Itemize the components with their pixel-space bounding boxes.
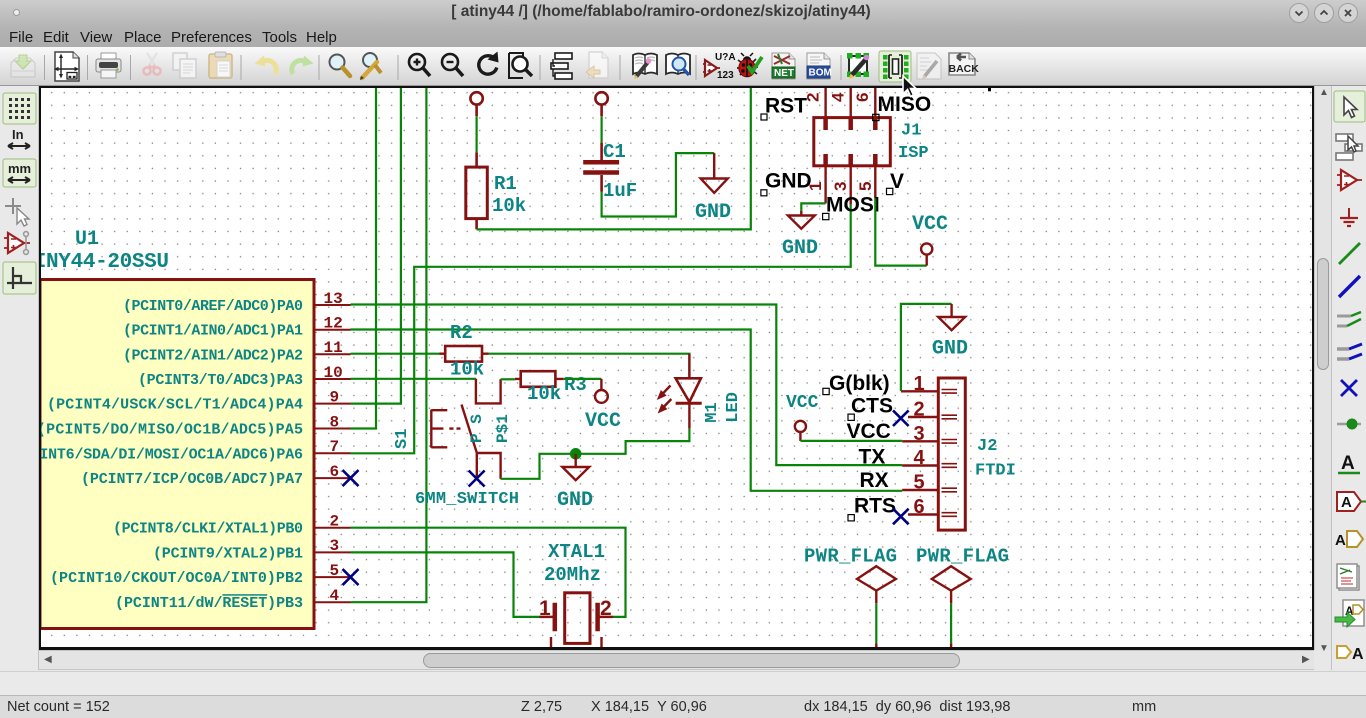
no-connect pin6: [343, 470, 359, 486]
IC U1 body: [40, 280, 314, 629]
redraw: [479, 52, 499, 75]
crystal XTAL1: [539, 593, 613, 650]
wire C1 bottom to GND: [602, 153, 715, 216]
XTAL1 pin numbers: [539, 597, 612, 620]
wire VCC to J2 pin3: [800, 440, 902, 442]
svg-text:A: A: [1341, 453, 1355, 474]
svg-text:A: A: [1335, 532, 1346, 549]
svg-text:2: 2: [914, 399, 925, 421]
svg-text:RTS: RTS: [854, 495, 896, 518]
svg-text:GND: GND: [782, 237, 818, 260]
no-connect J2 pin2: [893, 410, 909, 426]
sheet border tick: [988, 88, 991, 91]
hidden pins opamp: [4, 232, 30, 255]
hierarchical label: [1335, 531, 1363, 549]
wire PA3(10) to S1: [351, 378, 476, 380]
redo (disabled): [292, 56, 314, 75]
svg-text:XTAL1: XTAL1: [548, 541, 605, 563]
zoom fit: [509, 53, 532, 78]
LED M1: [660, 354, 702, 429]
junction: [1337, 419, 1361, 430]
capacitor C1: [583, 92, 619, 191]
svg-text:(PCINT4/USCK/SCL/T1/ADC4)PA4: (PCINT4/USCK/SCL/T1/ADC4)PA4: [47, 397, 303, 414]
svg-text:GND: GND: [932, 338, 968, 361]
copy (disabled): [173, 53, 196, 78]
svg-text:U?A: U?A: [715, 52, 736, 63]
svg-text:V: V: [890, 170, 904, 193]
svg-text:R3: R3: [564, 374, 587, 396]
svg-text:R2: R2: [450, 322, 473, 344]
svg-text:5: 5: [914, 472, 925, 494]
cut (disabled): [143, 53, 160, 75]
svg-text:7: 7: [330, 438, 340, 456]
wire PB3(4) up: [351, 88, 427, 602]
svg-text:FTDI: FTDI: [975, 462, 1016, 481]
global label: [1337, 492, 1366, 511]
svg-text:U1: U1: [75, 228, 99, 251]
C1 top wire: [600, 116, 602, 142]
svg-text:10: 10: [324, 364, 343, 382]
svg-text:(PCINT1/AIN0/ADC1)PA1: (PCINT1/AIN0/ADC1)PA1: [123, 323, 303, 340]
wire to bus entry: [1337, 312, 1361, 326]
junction: [570, 448, 582, 460]
zoom in: [409, 54, 430, 76]
svg-text:10k: 10k: [450, 359, 484, 381]
connector J1: [814, 88, 891, 205]
svg-text:11: 11: [324, 339, 343, 357]
svg-text:1: 1: [914, 373, 925, 395]
svg-text:3: 3: [914, 423, 925, 445]
footprint import (disabled): [917, 53, 941, 79]
PWR2 stub: [950, 643, 952, 649]
svg-text:VCC: VCC: [585, 410, 621, 433]
wire PB0(2) to XTAL1 pin2: [351, 528, 626, 617]
svg-text:BACK: BACK: [949, 63, 980, 75]
svg-text:RST: RST: [765, 95, 807, 118]
svg-text:6: 6: [330, 463, 340, 481]
svg-text:J2: J2: [977, 437, 997, 456]
svg-text:(PCINT3/T0/ADC3)PA3: (PCINT3/T0/ADC3)PA3: [138, 372, 303, 389]
svg-text:LED: LED: [724, 392, 743, 423]
resistor R1: [466, 92, 488, 229]
undo (disabled): [255, 56, 277, 75]
page settings: [54, 52, 79, 81]
svg-text:6: 6: [914, 496, 925, 518]
svg-text:(PCINT11/dW/RESET)PB3: (PCINT11/dW/RESET)PB3: [115, 595, 303, 612]
svg-text:A: A: [1341, 494, 1352, 511]
svg-text:(PCINT0/AREF/ADC0)PA0: (PCINT0/AREF/ADC0)PA0: [123, 298, 303, 315]
svg-text:M1: M1: [703, 402, 722, 422]
svg-text:4: 4: [330, 587, 340, 605]
place power port: [1340, 208, 1358, 226]
wire PA1(12) to J2 RX: [351, 330, 903, 491]
J2 pin numbers: [914, 373, 926, 518]
svg-text:(PCINT6/SDA/DI/MOSI/OC1A/ADC6): (PCINT6/SDA/DI/MOSI/OC1A/ADC6)PA6: [41, 446, 303, 463]
wire PA6(7) to J1 pin3 MOSI: [351, 205, 851, 454]
wire R2 to LED: [489, 354, 690, 379]
wire PA5(8) up: [351, 88, 377, 429]
svg-text:(PCINT9/XTAL2)PB1: (PCINT9/XTAL2)PB1: [153, 545, 303, 562]
svg-text:4: 4: [829, 92, 848, 102]
svg-text:S1: S1: [393, 429, 412, 449]
svg-text:(PCINT10/CKOUT/OC0A/INT0)PB2: (PCINT10/CKOUT/OC0A/INT0)PB2: [50, 570, 303, 587]
svg-text:GND: GND: [557, 489, 593, 512]
svg-text:3: 3: [330, 537, 340, 555]
svg-text:GND: GND: [765, 170, 812, 193]
hierarchy: [551, 53, 572, 79]
wire R3 to VCC: [564, 378, 602, 380]
no connect flag: [1341, 380, 1357, 396]
power VCC (R3): [595, 379, 608, 403]
wire PA4(9) up: [351, 88, 401, 404]
leave sheet (disabled): [586, 52, 608, 78]
library browser: [666, 54, 690, 76]
annotate: [703, 52, 736, 81]
wire LED to S1: [501, 429, 690, 479]
svg-text:NET: NET: [774, 68, 794, 79]
wire J1 pin5 to VCC: [875, 198, 926, 265]
svg-text:8: 8: [330, 413, 340, 431]
svg-text:A: A: [1352, 646, 1364, 663]
wire R1 bottom up-right to top: [477, 88, 751, 229]
svg-text:TX: TX: [859, 446, 886, 469]
svg-text:3: 3: [831, 182, 850, 191]
svg-text:10k: 10k: [527, 383, 561, 405]
paste (disabled): [209, 52, 232, 78]
switch S1: [431, 379, 500, 479]
power flag PWR1: [857, 566, 896, 603]
wire PA0(13) to J2 TX: [351, 305, 903, 466]
svg-text:5: 5: [856, 182, 875, 191]
resistor R3: [515, 371, 564, 387]
mm button (active): [3, 159, 36, 187]
cvpcb: [847, 53, 869, 79]
svg-text:C1: C1: [603, 141, 626, 163]
svg-text:VCC: VCC: [786, 393, 819, 413]
svg-text:PWR_FLAG: PWR_FLAG: [804, 546, 897, 568]
HV orientation button (active): [3, 262, 36, 294]
svg-text:P S: P S: [468, 414, 486, 443]
svg-text:(PCINT2/AIN1/ADC2)PA2: (PCINT2/AIN1/ADC2)PA2: [123, 347, 303, 364]
svg-text:J1: J1: [901, 122, 921, 141]
svg-text:PWR_FLAG: PWR_FLAG: [916, 546, 1009, 568]
R3 wire from S1: [501, 378, 515, 380]
svg-text:9: 9: [330, 388, 340, 406]
svg-text:VCC: VCC: [912, 213, 948, 236]
find and replace: [360, 53, 381, 80]
graphic text: [1337, 646, 1364, 663]
no-connect S1 lower pin: [469, 471, 485, 487]
svg-text:20Mhz: 20Mhz: [544, 564, 601, 586]
resistor R2: [440, 346, 489, 362]
power VCC (J1): [921, 243, 932, 265]
svg-text:GND: GND: [695, 201, 731, 224]
svg-text:6: 6: [853, 93, 872, 102]
cursor shape: [5, 198, 21, 214]
connector J2: [901, 378, 965, 530]
PWR2 wire: [950, 603, 952, 643]
svg-text:VCC: VCC: [847, 420, 891, 443]
J1 pin numbers top 2 4 6: [804, 92, 873, 102]
bus to bus entry: [1337, 344, 1362, 359]
hierarchy navigation: [1336, 134, 1362, 160]
svg-text:1uF: 1uF: [603, 180, 637, 202]
svg-text:13: 13: [324, 290, 343, 308]
library editor: [633, 54, 657, 80]
svg-text:R1: R1: [494, 173, 517, 195]
svg-text:5: 5: [330, 562, 340, 580]
U1 pin stubs (red): [314, 305, 351, 602]
R1 top wire: [476, 116, 478, 152]
save (disabled): [11, 55, 35, 77]
svg-text:In: In: [12, 127, 24, 142]
run pcbnew (highlighted): [879, 51, 911, 82]
svg-text:mm: mm: [8, 161, 31, 176]
svg-text:(PCINT7/ICP/OC0B/ADC7)PA7: (PCINT7/ICP/OC0B/ADC7)PA7: [81, 471, 303, 488]
import sheet pin: [1335, 600, 1364, 627]
grid button (active): [3, 93, 36, 124]
PWR1 wire: [875, 603, 877, 643]
svg-text:12: 12: [324, 315, 343, 333]
no-connect J2 pin6: [893, 509, 909, 525]
svg-text:2: 2: [330, 513, 340, 531]
find: [330, 55, 351, 77]
svg-text:P$1: P$1: [494, 414, 512, 443]
place bus: [1339, 276, 1360, 297]
wire J1 pin1 to GND: [801, 203, 825, 211]
svg-text:(PCINT5/DO/MISO/OC1B/ADC5)PA5: (PCINT5/DO/MISO/OC1B/ADC5)PA5: [41, 422, 303, 439]
LED arrows heads: [654, 390, 668, 416]
power VCC (J2): [795, 421, 806, 441]
svg-text:ATTINY44-20SSU: ATTINY44-20SSU: [41, 251, 169, 274]
svg-text:10k: 10k: [492, 195, 526, 217]
wire PB1(3) to XTAL1 pin1: [351, 552, 555, 617]
wire PA2(11) to R2: [351, 353, 440, 355]
netlist: [772, 53, 795, 79]
svg-text:MOSI: MOSI: [826, 194, 880, 217]
svg-text:1: 1: [539, 597, 551, 620]
PWR1 stub: [875, 643, 877, 649]
ground symbol top: [701, 153, 728, 193]
svg-text:(PCINT8/CLKI/XTAL1)PB0: (PCINT8/CLKI/XTAL1)PB0: [113, 521, 303, 538]
zoom out: [442, 54, 463, 76]
svg-text:4: 4: [914, 447, 926, 469]
print: [96, 53, 121, 78]
net label: [1338, 453, 1360, 474]
svg-text:G(blk): G(blk): [829, 372, 890, 395]
ground symbol mid: [562, 454, 589, 480]
place component: [1337, 170, 1362, 190]
svg-text:CTS: CTS: [851, 395, 893, 418]
J1 pin numbers bottom 1 3 5: [806, 182, 875, 191]
ERC ladybug: [737, 53, 762, 77]
back annotate: [949, 53, 980, 75]
U1 pin names: [13, 298, 303, 612]
svg-text:ISP: ISP: [898, 144, 929, 163]
wire J2 pin1 to GND: [901, 304, 952, 391]
U1 pin numbers: [324, 290, 343, 605]
power flag PWR2: [932, 566, 971, 603]
svg-text:2: 2: [600, 597, 612, 620]
place wire: [1339, 243, 1360, 264]
no-connect pin5: [343, 569, 359, 585]
cursor button (active): [1334, 91, 1365, 122]
svg-text:123: 123: [717, 70, 734, 81]
svg-text:BOM: BOM: [809, 68, 832, 79]
ground symbol J2: [938, 304, 965, 330]
ground symbol J1: [788, 211, 815, 229]
svg-text:RX: RX: [860, 469, 889, 492]
svg-text:6MM_SWITCH: 6MM_SWITCH: [415, 490, 519, 509]
hierarchical sheet: [1337, 564, 1359, 590]
BOM: [807, 53, 832, 79]
